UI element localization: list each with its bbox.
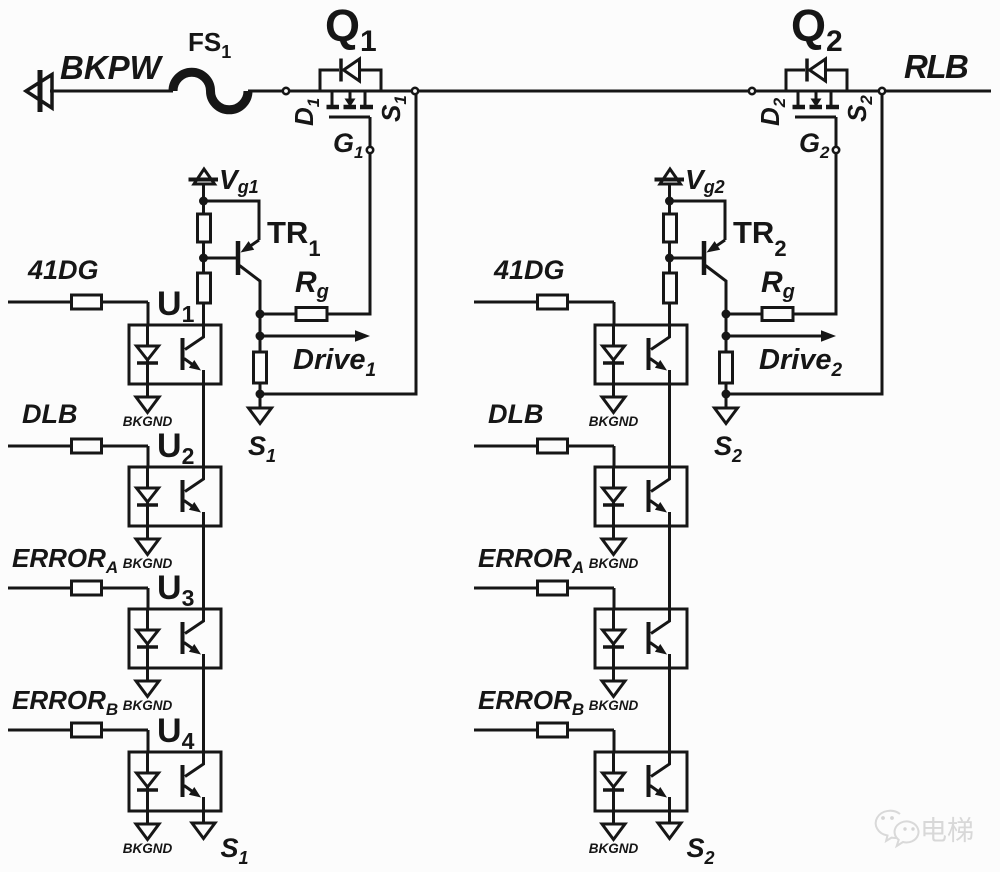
junction dot S2 return node	[722, 390, 731, 399]
wire input ERROR	[474, 729, 538, 732]
phototransistor base bar	[647, 765, 651, 797]
resistor Rg	[296, 308, 327, 321]
junction dot TR2 base node	[665, 254, 674, 263]
svg-text:U2: U2	[157, 427, 194, 469]
phototransistor emitter wire	[202, 797, 205, 811]
LED cathode wire to ground	[612, 787, 615, 824]
body diode D1 loop wire right	[360, 70, 382, 93]
pin G1 terminal circle	[367, 147, 373, 153]
optocoupler U3 box	[129, 609, 221, 668]
svg-text:电梯: 电梯	[920, 816, 974, 846]
wire Drive2 arrow	[726, 335, 824, 338]
mosfet Q2 channel bars	[793, 105, 806, 110]
phototransistor collector	[651, 467, 670, 492]
LED triangle	[137, 630, 159, 644]
LED triangle	[137, 773, 159, 787]
svg-text:U4: U4	[157, 712, 195, 754]
optocoupler U2 box	[129, 467, 221, 526]
phototransistor emitter	[650, 501, 659, 507]
svg-text:TR2: TR2	[733, 215, 787, 261]
resistor input 41DG	[72, 295, 102, 309]
junction dot TR1 base node	[199, 254, 208, 263]
body diode D1 loop wire left	[320, 70, 339, 93]
phototransistor base bar	[181, 338, 185, 370]
phototransistor collector	[185, 325, 204, 350]
LED cathode wire to ground	[612, 502, 615, 539]
LED anode wire	[146, 752, 149, 773]
wire S1 return	[260, 93, 416, 394]
LED triangle	[603, 488, 625, 502]
resistor input ERROR	[72, 723, 102, 737]
mosfet Q1 gate lead	[369, 117, 372, 147]
svg-text:FS1: FS1	[188, 27, 231, 62]
ground BKGND	[136, 397, 159, 413]
junction dot Vg2 node	[665, 197, 674, 206]
wire input DLB	[8, 445, 72, 448]
phototransistor emitter wire	[668, 797, 671, 811]
wire input DLB	[474, 445, 538, 448]
phototransistor emitter	[650, 643, 659, 649]
wire node to Q2	[755, 90, 878, 93]
svg-text:G2: G2	[799, 128, 830, 162]
wire TR1 base	[204, 257, 239, 260]
wire collector to source return	[725, 314, 728, 394]
LED anode wire	[146, 467, 149, 488]
LED cathode bar	[137, 361, 158, 365]
wire rail Q1 to Q2	[419, 90, 749, 93]
ground BKGND	[602, 397, 625, 413]
junction dot Vg1 node	[199, 197, 208, 206]
resistor input DLB	[72, 439, 102, 453]
transistor TR1 emitter arrow	[250, 240, 259, 246]
svg-text:ERRORA: ERRORA	[12, 543, 118, 577]
phototransistor collector	[185, 467, 204, 492]
svg-text:ERRORA: ERRORA	[478, 543, 584, 577]
body diode D2 loop wire left	[786, 70, 805, 93]
junction dot Rg node	[256, 310, 265, 319]
resistor upper (Vg1 chain)	[198, 214, 211, 242]
svg-text:BKGND: BKGND	[589, 841, 639, 856]
phototransistor collector	[185, 609, 204, 634]
LED cathode wire to ground	[146, 502, 149, 539]
phototransistor emitter	[650, 359, 659, 365]
ground BKGND	[602, 824, 625, 840]
svg-text:BKGND: BKGND	[123, 698, 173, 713]
mosfet Q1 channel bars	[327, 105, 340, 110]
ground S1 (optocoupler chain)	[192, 823, 215, 839]
wire to next optocoupler	[668, 668, 671, 753]
LED anode wire	[612, 609, 615, 630]
LED anode wire	[612, 325, 615, 346]
phototransistor base bar	[647, 338, 651, 370]
mosfet Q2 body arrow	[815, 91, 818, 100]
LED triangle	[603, 346, 625, 360]
svg-text:Vg2: Vg2	[685, 164, 725, 197]
body diode D2 cathode bar	[805, 59, 809, 82]
LED anode wire	[612, 752, 615, 773]
phototransistor collector	[651, 325, 670, 350]
LED triangle	[137, 346, 159, 360]
supply symbol Vg1 arrow	[194, 169, 215, 184]
svg-text:G1: G1	[333, 128, 363, 162]
svg-text:ERRORB: ERRORB	[478, 685, 584, 719]
phototransistor emitter	[650, 786, 659, 792]
phototransistor emitter	[184, 643, 193, 649]
LED triangle	[603, 773, 625, 787]
svg-text:Drive1: Drive1	[293, 344, 376, 381]
resistor upper (Vg2 chain)	[664, 214, 677, 242]
transistor TR2 base bar	[702, 241, 707, 275]
svg-text:Vg1: Vg1	[219, 164, 259, 197]
phototransistor emitter wire	[668, 512, 671, 526]
wire emitter to ground	[668, 811, 671, 823]
svg-text:BKGND: BKGND	[123, 841, 173, 856]
wire resistor chain Vg2	[668, 201, 671, 325]
ground BKGND	[136, 681, 159, 697]
wire to next optocoupler	[202, 384, 205, 469]
wire Vg2 to TR2 emitter	[670, 201, 726, 240]
wire Rg to gate G2	[793, 153, 836, 314]
optocoupler DLB (circuit 2) box	[595, 467, 687, 526]
resistor input 41DG	[538, 295, 568, 309]
ground BKGND	[136, 539, 159, 555]
node D2 on rail	[749, 88, 755, 94]
resistor input ERROR	[538, 723, 568, 737]
wire Rg to gate G1	[327, 153, 370, 314]
ground BKGND	[602, 681, 625, 697]
phototransistor emitter	[184, 786, 193, 792]
wire Drive1 arrow	[260, 335, 358, 338]
LED anode wire	[146, 609, 149, 630]
phototransistor emitter wire	[202, 654, 205, 668]
LED cathode wire to ground	[146, 644, 149, 681]
resistor pull-down	[254, 352, 267, 383]
fuse FS1	[173, 72, 248, 110]
svg-text:D1: D1	[289, 98, 323, 126]
LED triangle	[137, 488, 159, 502]
mosfet Q2 gate lead	[835, 117, 838, 147]
ground BKGND	[602, 539, 625, 555]
LED anode wire	[612, 467, 615, 488]
resistor pull-down	[720, 352, 733, 383]
svg-text:D2: D2	[755, 97, 789, 126]
LED cathode bar	[603, 503, 624, 507]
ground BKGND	[136, 824, 159, 840]
svg-text:S1: S1	[248, 431, 276, 466]
phototransistor emitter wire	[202, 512, 205, 526]
mosfet Q1 body arrow	[349, 91, 352, 100]
LED cathode wire to ground	[612, 360, 615, 397]
svg-text:Q2: Q2	[791, 0, 843, 58]
phototransistor emitter wire	[668, 654, 671, 668]
phototransistor base bar	[181, 480, 185, 512]
svg-text:41DG: 41DG	[27, 255, 99, 285]
junction dot Drive1 node	[256, 332, 265, 341]
svg-text:S2: S2	[687, 833, 715, 868]
mosfet Q1 drain stub	[331, 91, 334, 105]
wire input ERROR	[8, 587, 72, 590]
mosfet Q1 gate plate	[329, 116, 370, 119]
optocoupler ERROR (circuit 2) box	[595, 609, 687, 668]
transistor TR2 emitter arrow	[716, 240, 725, 246]
ground S1 (driver)	[259, 394, 262, 408]
junction dot S1 return node	[256, 390, 265, 399]
wire input ERROR	[474, 587, 538, 590]
svg-text:Drive2: Drive2	[759, 344, 843, 381]
body diode D2 loop wire right	[826, 70, 848, 93]
transistor TR2 collector	[706, 266, 727, 315]
LED cathode bar	[137, 788, 158, 792]
phototransistor base bar	[647, 480, 651, 512]
resistor input ERROR	[538, 581, 568, 595]
wire S2 return	[726, 93, 882, 394]
svg-text:BKGND: BKGND	[589, 414, 639, 429]
body diode D1 cathode bar	[339, 59, 343, 82]
optocoupler U1 box	[129, 325, 221, 384]
svg-text:DLB: DLB	[488, 399, 544, 429]
wire to next optocoupler	[202, 668, 205, 753]
body diode D2 triangle	[810, 59, 826, 81]
wire input 41DG	[8, 301, 72, 304]
svg-text:S1: S1	[376, 95, 410, 122]
body diode D1 triangle	[344, 59, 360, 81]
optocoupler U4 box	[129, 752, 221, 811]
watermark WeChat logo	[876, 811, 919, 846]
resistor lower (Vg2 chain)	[664, 273, 677, 303]
wire emitter to ground	[202, 811, 205, 823]
LED cathode wire to ground	[146, 360, 149, 397]
node S2 on rail	[879, 88, 885, 94]
svg-text:BKGND: BKGND	[589, 556, 639, 571]
svg-text:S1: S1	[221, 833, 249, 868]
wire TR2 base	[670, 257, 705, 260]
junction dot Drive2 node	[722, 332, 731, 341]
phototransistor collector	[185, 752, 204, 777]
resistor Rg	[762, 308, 793, 321]
LED cathode bar	[603, 361, 624, 365]
phototransistor emitter	[184, 501, 193, 507]
ground S2 (driver)	[725, 394, 728, 408]
resistor lower (Vg1 chain)	[198, 273, 211, 303]
mosfet Q2 drain stub	[797, 91, 800, 105]
supply symbol Vg2 arrow	[660, 169, 681, 184]
phototransistor emitter	[184, 359, 193, 365]
node S1 on rail	[412, 88, 418, 94]
LED triangle	[603, 630, 625, 644]
svg-text:BKGND: BKGND	[589, 698, 639, 713]
LED cathode wire to ground	[146, 787, 149, 824]
svg-text:BKPW: BKPW	[60, 49, 164, 86]
wire to Rg	[726, 313, 762, 316]
mosfet Q2 gate plate	[795, 116, 836, 119]
optocoupler 41DG (circuit 2) box	[595, 325, 687, 384]
svg-text:U1: U1	[157, 285, 195, 327]
resistor input DLB	[538, 439, 568, 453]
wire to Rg	[260, 313, 296, 316]
wire collector to source return	[259, 314, 262, 394]
phototransistor collector	[651, 752, 670, 777]
svg-text:S2: S2	[714, 431, 742, 466]
wire resistor chain Vg1	[202, 201, 205, 325]
LED cathode bar	[137, 503, 158, 507]
svg-text:Q1: Q1	[325, 0, 377, 58]
svg-text:41DG: 41DG	[493, 255, 565, 285]
wire to next optocoupler	[202, 526, 205, 611]
svg-text:DLB: DLB	[22, 399, 78, 429]
wire fuse to node	[248, 90, 283, 93]
svg-text:Rg: Rg	[761, 266, 795, 303]
phototransistor base bar	[181, 622, 185, 654]
phototransistor emitter wire	[202, 370, 205, 384]
LED anode wire	[146, 325, 149, 346]
junction dot Rg node	[722, 310, 731, 319]
optocoupler ERROR (circuit 2) box	[595, 752, 687, 811]
svg-text:TR1: TR1	[267, 215, 321, 261]
wire to next optocoupler	[668, 384, 671, 469]
terminal BKPW arrow symbol	[38, 70, 43, 112]
wire BKPW to fuse	[50, 90, 173, 93]
phototransistor emitter wire	[668, 370, 671, 384]
mosfet Q1 source stub	[364, 91, 367, 105]
phototransistor base bar	[647, 622, 651, 654]
svg-text:Rg: Rg	[295, 266, 329, 303]
svg-text:ERRORB: ERRORB	[12, 685, 118, 719]
LED cathode bar	[603, 645, 624, 649]
svg-text:RLB: RLB	[904, 48, 968, 85]
transistor TR1 collector	[240, 266, 261, 315]
mosfet Q2 source stub	[830, 91, 833, 105]
transistor TR1 base bar	[236, 241, 241, 275]
resistor input ERROR	[72, 581, 102, 595]
wire node to Q1	[289, 90, 412, 93]
svg-text:S2: S2	[842, 95, 876, 122]
phototransistor base bar	[181, 765, 185, 797]
LED cathode bar	[603, 788, 624, 792]
wire input ERROR	[8, 729, 72, 732]
wire to next optocoupler	[668, 526, 671, 611]
wire input 41DG	[474, 301, 538, 304]
wire Vg1 to TR1 emitter	[204, 201, 260, 240]
pin G2 terminal circle	[833, 147, 839, 153]
LED cathode wire to ground	[612, 644, 615, 681]
phototransistor collector	[651, 609, 670, 634]
ground S2 (optocoupler chain)	[658, 823, 681, 839]
wire rail to RLB	[886, 90, 992, 93]
node D1	[283, 88, 289, 94]
LED cathode bar	[137, 645, 158, 649]
svg-text:U3: U3	[157, 569, 194, 611]
